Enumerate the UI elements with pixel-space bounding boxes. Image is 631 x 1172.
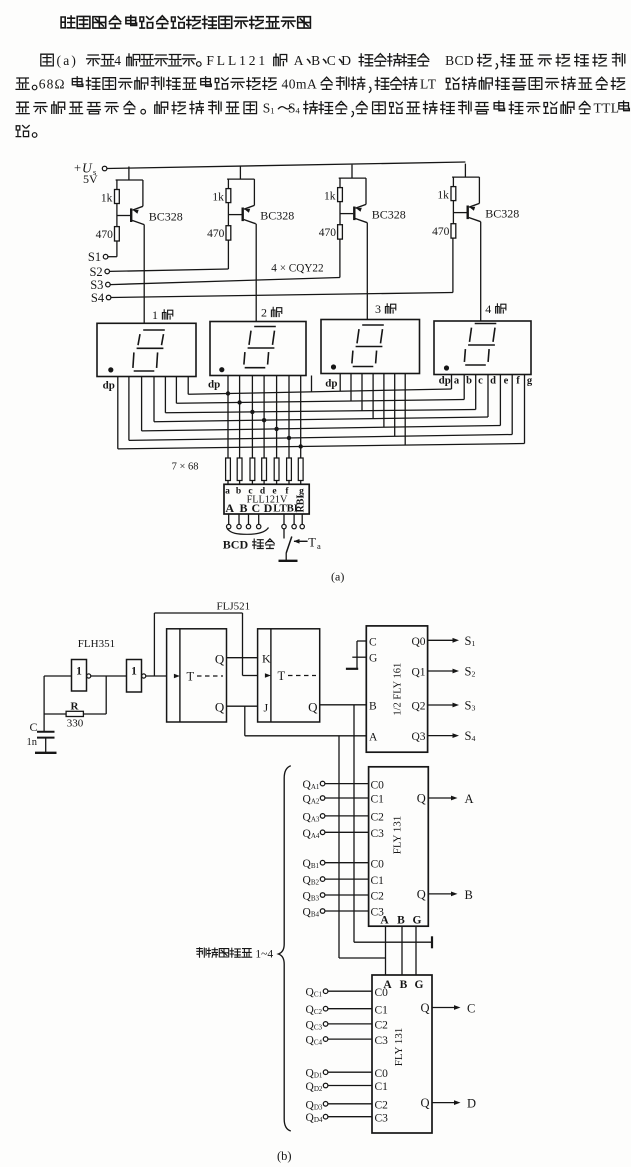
svg-text:d: d	[490, 376, 496, 387]
svg-text:C: C	[327, 53, 336, 68]
svg-text:A: A	[380, 915, 389, 927]
svg-text:A: A	[369, 732, 378, 744]
svg-text:g: g	[527, 376, 533, 387]
svg-text:40mA: 40mA	[282, 76, 318, 91]
svg-text:A: A	[294, 53, 304, 68]
svg-text:e: e	[504, 376, 509, 387]
svg-text:T: T	[187, 670, 195, 684]
svg-text:J: J	[264, 701, 269, 715]
svg-text:FLJ521: FLJ521	[217, 601, 251, 613]
svg-text:A: A	[465, 792, 474, 806]
svg-text:C: C	[30, 720, 38, 734]
svg-text:a: a	[454, 376, 460, 387]
svg-text:f: f	[516, 376, 520, 387]
svg-text:C1: C1	[371, 875, 385, 887]
svg-text:C0: C0	[375, 1068, 389, 1080]
svg-text:dp: dp	[439, 375, 451, 387]
svg-text:LT: LT	[420, 76, 437, 91]
svg-text:dp: dp	[103, 380, 115, 392]
svg-text:C0: C0	[371, 779, 385, 791]
svg-text:Q: Q	[420, 1096, 429, 1110]
svg-text:C1: C1	[371, 794, 385, 806]
svg-text:A: A	[225, 501, 234, 515]
svg-text:dp: dp	[325, 378, 337, 390]
svg-text:BC328: BC328	[372, 208, 406, 222]
svg-text:G: G	[415, 979, 424, 991]
svg-text:C: C	[369, 637, 377, 649]
svg-text:4: 4	[485, 302, 491, 316]
svg-text:1: 1	[131, 666, 137, 678]
svg-text:Q: Q	[417, 792, 426, 806]
svg-text:D: D	[264, 501, 273, 515]
svg-text:Q: Q	[308, 700, 318, 715]
svg-text:c: c	[478, 376, 483, 387]
svg-text:FLL121: FLL121	[206, 53, 268, 68]
svg-text:Q1: Q1	[411, 667, 425, 679]
svg-text:Q: Q	[417, 887, 426, 901]
svg-text:(a): (a)	[331, 570, 344, 584]
svg-text:C: C	[251, 501, 260, 515]
svg-text:1~4: 1~4	[255, 949, 273, 961]
svg-text:BC328: BC328	[485, 207, 519, 221]
svg-text:D: D	[467, 1097, 476, 1111]
svg-text:BC328: BC328	[260, 209, 294, 223]
svg-text:C3: C3	[375, 1112, 389, 1124]
svg-text:1k: 1k	[212, 192, 224, 204]
svg-text:T: T	[308, 536, 316, 550]
svg-text:FLY 131: FLY 131	[393, 1028, 405, 1067]
svg-text:330: 330	[67, 718, 84, 730]
svg-text:7 × 68: 7 × 68	[172, 462, 199, 473]
svg-text:Q: Q	[420, 1001, 429, 1015]
svg-text:(a): (a)	[57, 53, 79, 68]
svg-text:S4: S4	[91, 291, 105, 305]
svg-text:B: B	[311, 53, 320, 68]
svg-text:TTL: TTL	[594, 101, 620, 116]
svg-text:D: D	[341, 53, 351, 68]
svg-text:C3: C3	[371, 828, 385, 840]
svg-text:4: 4	[114, 53, 121, 68]
svg-text:Q2: Q2	[411, 701, 425, 713]
svg-text:C2: C2	[375, 1100, 389, 1112]
svg-text:G: G	[369, 653, 377, 665]
svg-text:b: b	[466, 376, 472, 387]
svg-text:B: B	[397, 915, 405, 927]
svg-text:b: b	[236, 486, 241, 496]
svg-text:B: B	[369, 701, 377, 713]
svg-text:Q: Q	[215, 700, 225, 715]
svg-text:2: 2	[261, 306, 267, 320]
svg-text:3: 3	[375, 302, 381, 316]
svg-text:C3: C3	[375, 1035, 389, 1047]
svg-text:Q: Q	[215, 652, 225, 667]
svg-text:S1: S1	[88, 250, 101, 264]
svg-text:T: T	[278, 669, 286, 683]
svg-text:B: B	[239, 501, 247, 515]
svg-text:Q0: Q0	[411, 636, 425, 648]
svg-text:+: +	[74, 161, 81, 175]
svg-text:C2: C2	[371, 812, 385, 824]
svg-text:C1: C1	[375, 1004, 389, 1016]
svg-text:1k: 1k	[101, 193, 113, 205]
svg-text:C: C	[467, 1002, 475, 1016]
svg-text:1: 1	[76, 666, 82, 678]
svg-text:1k: 1k	[324, 191, 336, 203]
svg-text:1/2 FLY 161: 1/2 FLY 161	[393, 663, 404, 716]
svg-text:4 × CQY22: 4 × CQY22	[271, 263, 323, 275]
svg-text:1: 1	[152, 308, 158, 322]
svg-text:BCD: BCD	[223, 538, 249, 552]
svg-text:dp: dp	[208, 379, 220, 391]
svg-text:C1: C1	[375, 1081, 389, 1093]
svg-text:a: a	[225, 486, 230, 496]
svg-text:1k: 1k	[437, 190, 449, 202]
svg-text:a: a	[317, 541, 321, 551]
svg-text:G: G	[413, 915, 422, 927]
svg-text:C2: C2	[375, 1020, 389, 1032]
svg-text:B: B	[400, 979, 408, 991]
svg-text:FLH351: FLH351	[78, 638, 115, 650]
svg-text:C0: C0	[375, 987, 389, 999]
svg-text:C2: C2	[371, 891, 385, 903]
svg-text:K: K	[262, 652, 271, 666]
svg-text:C0: C0	[371, 858, 385, 870]
svg-text:470: 470	[432, 226, 450, 238]
svg-text:470: 470	[207, 228, 225, 240]
svg-text:5V: 5V	[83, 172, 98, 186]
svg-text:R: R	[71, 701, 80, 713]
svg-text:470: 470	[96, 229, 114, 241]
svg-text:470: 470	[319, 227, 337, 239]
svg-text:(b): (b)	[277, 1149, 292, 1163]
svg-text:FLY 131: FLY 131	[392, 816, 404, 855]
svg-text:S3: S3	[90, 278, 103, 292]
svg-text:S2: S2	[89, 265, 102, 279]
svg-text:68Ω: 68Ω	[39, 76, 66, 91]
svg-text:B: B	[465, 888, 473, 902]
svg-text:RBI: RBI	[296, 495, 307, 513]
svg-text:Q3: Q3	[411, 731, 425, 743]
svg-text:LT: LT	[273, 502, 287, 514]
svg-text:BC328: BC328	[149, 210, 183, 224]
svg-text:1n: 1n	[27, 737, 38, 748]
svg-text:BCD: BCD	[445, 53, 474, 68]
